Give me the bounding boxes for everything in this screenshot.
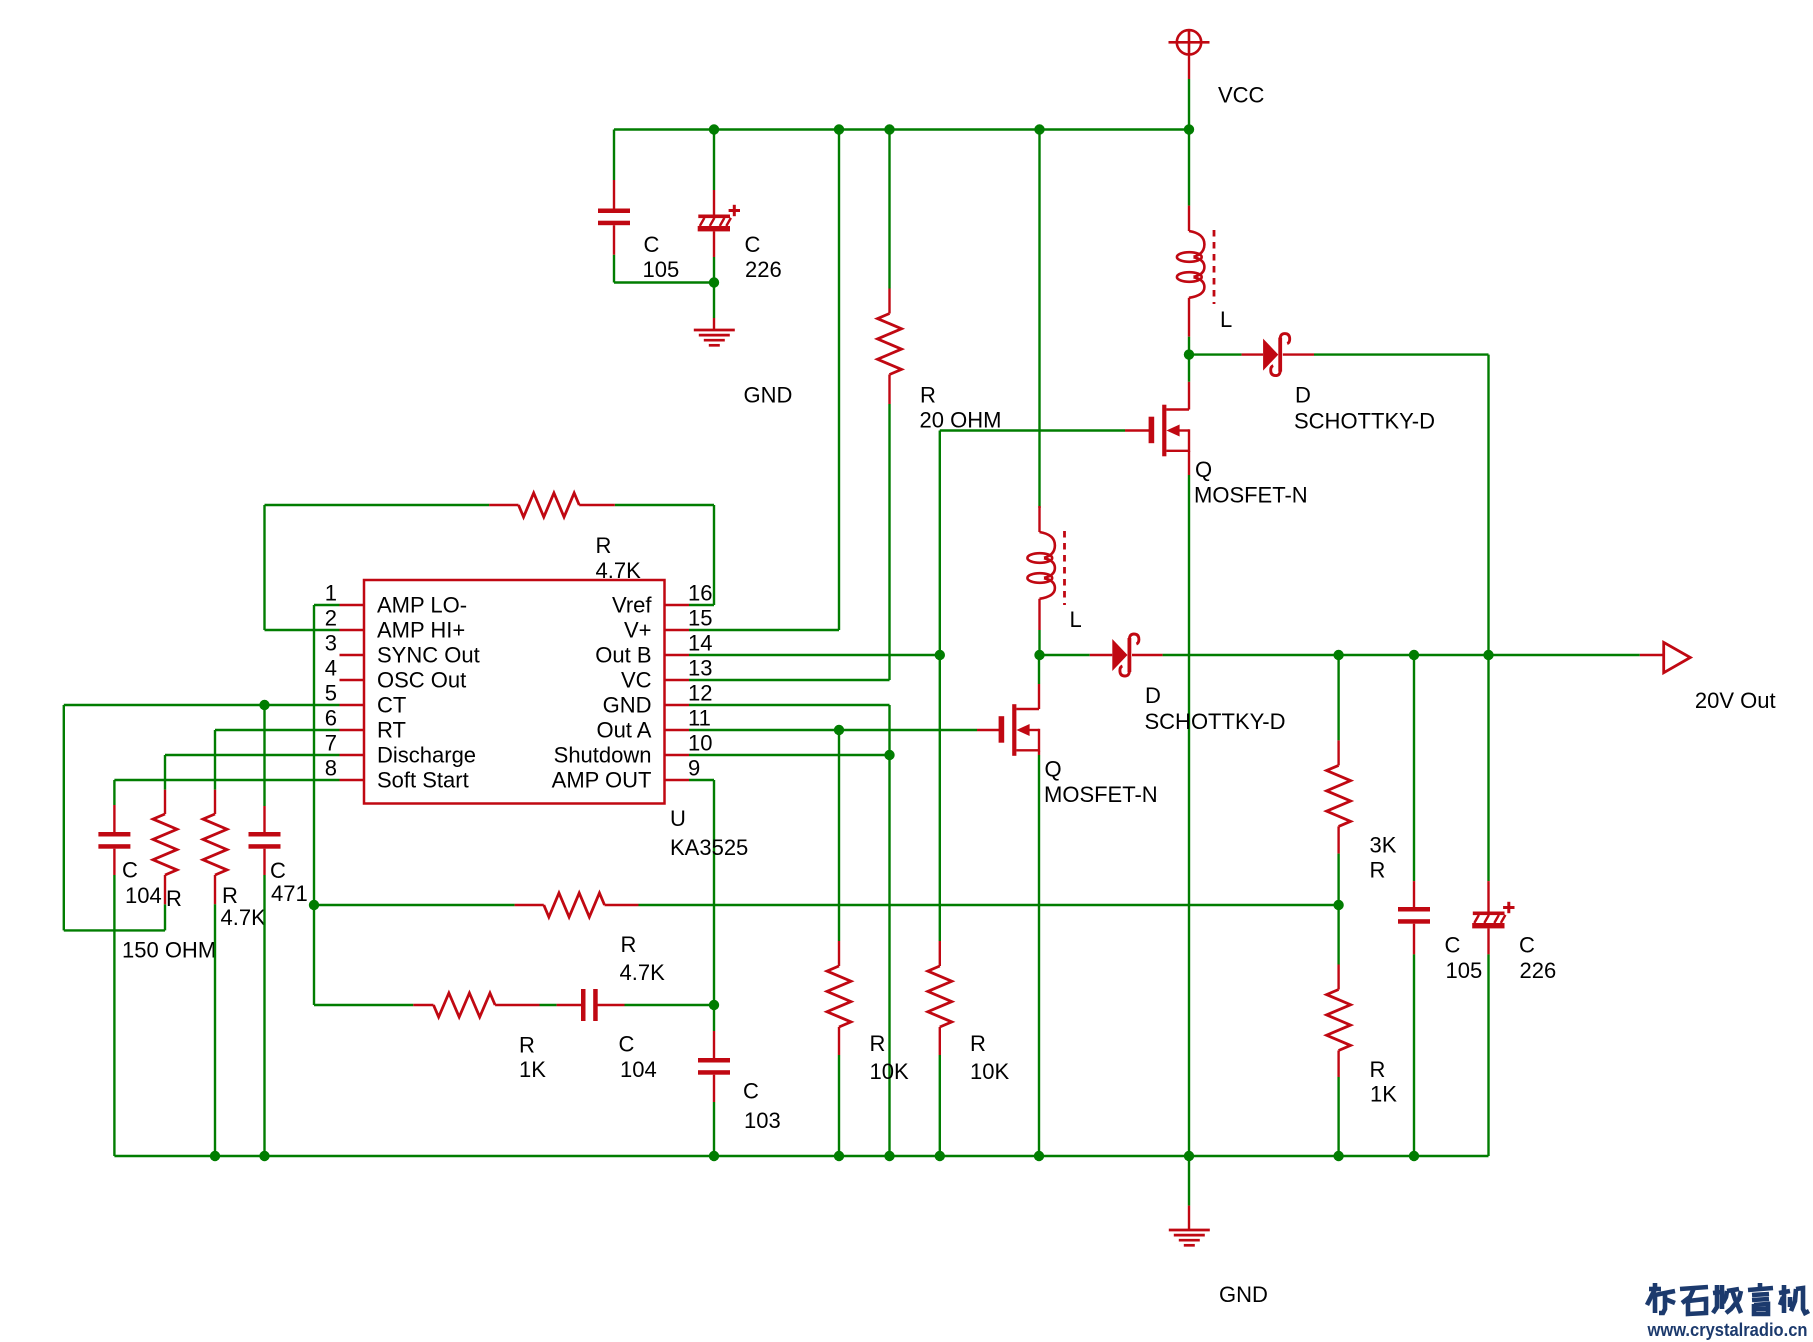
wire Vref to R1 [689, 505, 714, 605]
resistor R10 1K [1327, 990, 1351, 1051]
capacitor C3 104 lead bottom [113, 849, 115, 875]
svg-text:9: 9 [688, 756, 700, 781]
capacitor C4 471 top wire [263, 705, 265, 806]
diode D2 cathode lead [1132, 654, 1163, 656]
label R1 4.7K [596, 533, 642, 583]
svg-text:105: 105 [643, 257, 680, 282]
svg-text:AMP OUT: AMP OUT [552, 768, 652, 793]
node VCC-bus junction L1 [1184, 124, 1194, 134]
resistor R7 lead left [515, 904, 544, 906]
resistor R2 20ohm lead top [888, 289, 890, 314]
wire AMP OUT to comp node [689, 780, 714, 1005]
svg-text:7: 7 [325, 731, 337, 756]
wire 3K top [1337, 655, 1339, 740]
pin8 stub [340, 779, 365, 781]
resistor R3 150ohm lead top [164, 790, 166, 814]
resistor R2 20 OHM [878, 314, 902, 375]
svg-text:Q: Q [1045, 757, 1062, 782]
wire bus to C226 [713, 130, 715, 191]
resistor R9 3K lead top [1337, 740, 1339, 765]
capacitor C5 104 [581, 989, 598, 1021]
capacitor C2 226 lead bottom [713, 231, 715, 257]
wire R20 to VC pin [689, 404, 890, 680]
label GND top [744, 383, 793, 408]
capacitor C1 105 lead top [613, 180, 615, 210]
wire OutB node to R10K-2 [939, 655, 941, 941]
wire R20 bus drop [888, 130, 890, 289]
label C2 [745, 232, 782, 282]
resistor R4 lead bottom [838, 1027, 840, 1055]
resistor R1 lead right [579, 504, 615, 506]
svg-text:4.7K: 4.7K [620, 960, 666, 985]
transistor Q1 drain lead [1188, 355, 1190, 410]
svg-text:V+: V+ [624, 618, 652, 643]
node VCC-bus junction R20 [884, 124, 894, 134]
node bus R6 [210, 1151, 220, 1161]
label C8 226 [1519, 933, 1556, 984]
svg-text:104: 104 [125, 883, 162, 908]
wire Out B [689, 654, 939, 656]
node bus R10 [1333, 1151, 1343, 1161]
capacitor C1 105 lead bottom [613, 225, 615, 255]
resistor R5 lead bottom [939, 1027, 941, 1055]
pin1 stub [340, 604, 365, 606]
node bus Q1src [1184, 1151, 1194, 1161]
capacitor C4 471 [249, 832, 281, 849]
wire C226b top [1487, 655, 1489, 881]
svg-text:C: C [619, 1032, 635, 1057]
wire RT row [215, 730, 340, 790]
capacitor C2 226 lead top [713, 190, 715, 215]
svg-text:1K: 1K [1370, 1082, 1397, 1107]
svg-text:4: 4 [325, 656, 337, 681]
node bus C103 [709, 1151, 719, 1161]
svg-text:15: 15 [688, 606, 712, 631]
inductor L2 [1027, 531, 1064, 605]
label GND bottom [1219, 1282, 1268, 1307]
wire gate1 feed horizontal [940, 429, 1125, 431]
U1 right pin labels [552, 581, 713, 793]
diode D2 SCHOTTKY-D [1112, 634, 1139, 676]
power VCC symbol [1169, 30, 1210, 79]
svg-text:Out A: Out A [596, 718, 651, 743]
wire output row to arrow [1163, 654, 1640, 656]
svg-text:C: C [1445, 933, 1461, 958]
pin13 stub [665, 679, 690, 681]
label U1 [670, 806, 748, 860]
svg-text:Vref: Vref [612, 593, 652, 618]
label C3 104 [122, 858, 162, 909]
svg-text:C: C [743, 1079, 759, 1104]
capacitor C5 lead right [598, 1004, 625, 1006]
node output/C105b junction [1409, 650, 1419, 660]
wire ground bus [114, 1155, 1488, 1157]
node Out B / gate1 junction [935, 650, 945, 660]
svg-text:KA3525: KA3525 [670, 835, 748, 860]
node bus Q2src [1034, 1151, 1044, 1161]
svg-text:C: C [644, 232, 660, 257]
wire OutA node to R10K-1 [838, 730, 840, 941]
node CT/C471 junction [259, 700, 269, 710]
output arrow lead [1640, 654, 1664, 656]
svg-text:C: C [122, 858, 138, 883]
wire VCC top bus [614, 128, 1189, 130]
label R4 10K [870, 1031, 909, 1084]
node C105/C226 junction [709, 277, 719, 287]
node bus R5 [935, 1151, 945, 1161]
svg-text:4.7K: 4.7K [221, 905, 267, 930]
resistor R8 lead right [495, 1004, 539, 1006]
label R3 150 OHM [122, 886, 216, 963]
svg-text:10K: 10K [870, 1059, 909, 1084]
svg-text:R: R [621, 932, 637, 957]
label R8 1K [519, 1033, 546, 1083]
label L2 [1070, 607, 1082, 632]
capacitor C3 104 lead top [113, 805, 115, 833]
svg-text:L: L [1220, 307, 1232, 332]
svg-text:1K: 1K [519, 1057, 546, 1082]
wire R10 to ground bus [1337, 1077, 1339, 1156]
svg-text:C: C [270, 858, 286, 883]
wire CT row [64, 704, 340, 706]
op-amp U1 KA3525 box [364, 580, 665, 804]
svg-text:U: U [670, 806, 686, 831]
svg-text:OSC Out: OSC Out [377, 668, 466, 693]
label D2 [1145, 683, 1286, 734]
wire feedback row [314, 904, 515, 906]
resistor R8 lead left [413, 1004, 433, 1006]
svg-text:104: 104 [620, 1057, 657, 1082]
node Shutdown/GND junction [884, 750, 894, 760]
svg-text:6: 6 [325, 706, 337, 731]
inductor L1 lead top [1188, 206, 1190, 231]
wire L1 to drain node [1188, 337, 1190, 355]
wire AMP LO- vertical [314, 605, 340, 1005]
wire output row [1040, 654, 1090, 656]
wire feedback row right [639, 904, 1339, 906]
transistor Q2 gate lead [977, 729, 1002, 731]
capacitor C7 105 lead top [1413, 881, 1415, 907]
capacitor C6 103 [698, 1058, 730, 1075]
wire L2 to output node [1038, 630, 1040, 655]
svg-text:20 OHM: 20 OHM [920, 408, 1002, 433]
svg-text:Out B: Out B [595, 643, 651, 668]
svg-text:MOSFET-N: MOSFET-N [1194, 483, 1308, 508]
U1 left pin labels [325, 581, 480, 793]
resistor R6 4.7K (RT) [203, 814, 227, 875]
svg-text:RT: RT [377, 718, 406, 743]
svg-text:1: 1 [325, 581, 337, 606]
pin4 stub [340, 679, 365, 681]
svg-text:3K: 3K [1370, 833, 1397, 858]
svg-text:16: 16 [688, 581, 712, 606]
inductor L1 lead bottom [1188, 298, 1190, 337]
svg-text:MOSFET-N: MOSFET-N [1044, 782, 1158, 807]
wire R8 to C104b [540, 1004, 557, 1006]
resistor R4 10K [827, 966, 851, 1027]
wire gate1 feed vertical [939, 431, 941, 656]
svg-text:CT: CT [377, 693, 406, 718]
wire comp row [314, 1004, 413, 1006]
capacitor C5 lead left [557, 1004, 582, 1006]
label C1 [643, 232, 680, 282]
node bus GNDnet [884, 1151, 894, 1161]
svg-text:105: 105 [1446, 958, 1483, 983]
transistor Q2 source lead [1038, 751, 1040, 755]
svg-text:R: R [1370, 1057, 1386, 1082]
capacitor C8 226 lead top [1487, 881, 1489, 912]
label D1 [1294, 383, 1435, 434]
wire bus to L1 [1188, 130, 1190, 206]
pin16 stub [665, 604, 690, 606]
svg-text:www.crystalradio.cn: www.crystalradio.cn [1647, 1320, 1808, 1340]
pin5 stub [340, 704, 365, 706]
svg-text:5: 5 [325, 681, 337, 706]
svg-text:C: C [745, 232, 761, 257]
wire C226 to ground [713, 257, 715, 318]
transistor Q2 drain lead [1038, 655, 1040, 709]
watermark url [1647, 1320, 1808, 1340]
node bus R4 [834, 1151, 844, 1161]
capacitor C7 105 [1398, 907, 1430, 924]
resistor R10 1K lead bottom [1337, 1051, 1339, 1078]
capacitor C4 471 lead bottom [263, 849, 265, 875]
pin12 stub [665, 704, 690, 706]
svg-text:C: C [1519, 933, 1535, 958]
node L2/Q2/D2 junction [1034, 650, 1044, 660]
svg-text:R: R [1370, 858, 1386, 883]
svg-text:R: R [166, 886, 182, 911]
svg-text:AMP HI+: AMP HI+ [377, 618, 465, 643]
svg-text:R: R [519, 1033, 535, 1058]
wire bus to bottom ground [1188, 1156, 1190, 1206]
resistor R7 4.7K (feedback) [544, 893, 605, 917]
wire 3K to divider node [1337, 854, 1339, 905]
label R2 20 OHM [920, 383, 1002, 433]
node L1/Q1/D1 junction [1184, 349, 1194, 359]
node bus C471 [259, 1151, 269, 1161]
label Q1 [1194, 457, 1308, 508]
pin3 stub [340, 654, 365, 656]
transistor Q2 MOSFET-N [999, 704, 1039, 756]
wire R6 to ground bus [214, 904, 216, 1156]
wire C103 to ground bus [713, 1102, 715, 1156]
capacitor C7 105 lead bottom [1413, 924, 1415, 955]
inductor L2 lead bottom [1038, 599, 1040, 630]
label C7 105 [1445, 933, 1483, 984]
svg-text:R: R [920, 383, 936, 408]
node output/C226b junction [1483, 650, 1493, 660]
wire GND pin to ground [689, 705, 890, 1156]
node Out A / R10K-1 junction [834, 725, 844, 735]
wire Out A [689, 729, 977, 731]
capacitor C6 103 lead top [713, 1031, 715, 1059]
capacitor C6 103 lead bottom [713, 1075, 715, 1102]
node output/3K junction [1333, 650, 1343, 660]
pin14 stub [665, 654, 690, 656]
wire node to C103 [713, 1005, 715, 1031]
wire Discharge row [165, 755, 340, 790]
resistor R5 lead top [939, 941, 941, 966]
wire Q2 source to ground bus [1038, 755, 1040, 1156]
wire R1 row right [615, 504, 714, 506]
svg-text:L: L [1070, 607, 1082, 632]
svg-text:R: R [870, 1031, 886, 1056]
node AMP OUT / C103 junction [709, 1000, 719, 1010]
wire D1 cathode to output [1314, 355, 1489, 655]
node VCC-bus junction C226 [709, 124, 719, 134]
svg-text:VC: VC [621, 668, 652, 693]
svg-text:150 OHM: 150 OHM [122, 938, 216, 963]
wire Soft Start row [114, 780, 339, 805]
label R10 1K [1370, 1057, 1398, 1107]
svg-text:3: 3 [325, 631, 337, 656]
svg-text:SYNC Out: SYNC Out [377, 643, 480, 668]
wire R4 to ground bus [838, 1055, 840, 1156]
label R5 10K [970, 1031, 1009, 1084]
diode D1 cathode lead [1283, 353, 1314, 355]
capacitor C3 104 [98, 832, 130, 849]
node VCC-bus junction V+ [834, 124, 844, 134]
inductor L2 lead top [1038, 506, 1040, 532]
label C4 471 [270, 858, 308, 906]
svg-text:R: R [970, 1031, 986, 1056]
wire D1 anode feed [1189, 353, 1242, 355]
pin10 stub [665, 754, 690, 756]
diode D2 anode lead [1090, 654, 1113, 656]
svg-text:103: 103 [744, 1108, 781, 1133]
label C6 103 [743, 1079, 781, 1134]
wire Q1 source to ground bus [1188, 475, 1190, 1156]
label R9 3K [1370, 833, 1397, 883]
svg-text:14: 14 [688, 631, 712, 656]
label R6 4.7K [221, 883, 267, 930]
svg-text:Q: Q [1195, 457, 1212, 482]
pin2 stub [340, 629, 365, 631]
resistor R10 1K lead top [1337, 965, 1339, 990]
wire divider to R1K [1337, 905, 1339, 965]
resistor R1 lead left [489, 504, 518, 506]
wire C8 to ground bus corner [1487, 954, 1489, 1156]
wire C7 to ground bus [1413, 954, 1415, 1156]
svg-text:AMP LO-: AMP LO- [377, 593, 467, 618]
ground lead under C226 [713, 318, 715, 330]
svg-text:SCHOTTKY-D: SCHOTTKY-D [1294, 409, 1435, 434]
svg-text:Discharge: Discharge [377, 743, 476, 768]
wire L2 bus drop [1038, 130, 1040, 509]
pin9 stub [665, 779, 690, 781]
svg-text:226: 226 [1520, 958, 1557, 983]
watermark logo [1647, 1283, 1809, 1314]
wire C105 bottom to C226 node [614, 255, 714, 283]
resistor R2 20ohm lead bottom [888, 375, 890, 405]
svg-text:GND: GND [1219, 1282, 1268, 1307]
label C5 104 [619, 1032, 657, 1083]
wire R1 row left to AMP HI+ [265, 505, 490, 630]
label VCC [1218, 83, 1265, 108]
wire C5 to AMP OUT node [625, 1004, 715, 1006]
svg-text:D: D [1295, 383, 1311, 408]
resistor R9 3K lead bottom [1337, 826, 1339, 853]
svg-text:13: 13 [688, 656, 712, 681]
resistor R9 3K [1327, 765, 1351, 826]
svg-text:226: 226 [745, 257, 782, 282]
resistor R3 150 OHM [153, 814, 177, 875]
capacitor C8 226 (polarized) [1472, 902, 1514, 929]
node VCC-bus junction L2 [1034, 124, 1044, 134]
wire CT left loop [64, 705, 165, 930]
svg-text:10K: 10K [970, 1059, 1009, 1084]
ground symbol top [694, 330, 735, 345]
svg-text:12: 12 [688, 681, 712, 706]
resistor R6 4.7K lead top [214, 790, 216, 814]
svg-text:VCC: VCC [1218, 83, 1265, 108]
resistor R1 4.7K [519, 493, 580, 517]
ground lead bottom [1188, 1206, 1190, 1230]
svg-text:SCHOTTKY-D: SCHOTTKY-D [1145, 709, 1286, 734]
output arrow [1664, 642, 1691, 672]
label Q2 [1044, 757, 1158, 808]
svg-text:471: 471 [271, 881, 308, 906]
wire C105b top [1413, 655, 1415, 881]
pin7 stub [340, 754, 365, 756]
node feedback/pin1 junction [309, 900, 319, 910]
svg-text:GND: GND [603, 693, 652, 718]
label 20V Out [1695, 688, 1776, 713]
resistor R4 lead top [838, 941, 840, 966]
wire C471 to ground bus [263, 875, 265, 1156]
node divider junction [1333, 900, 1343, 910]
label L1 [1220, 307, 1232, 332]
wire bus to C105 [613, 130, 615, 181]
transistor Q1 MOSFET-N [1149, 405, 1189, 457]
svg-text:Shutdown: Shutdown [554, 743, 652, 768]
pin6 stub [340, 729, 365, 731]
svg-text:10: 10 [688, 731, 712, 756]
svg-text:8: 8 [325, 756, 337, 781]
transistor Q1 source lead [1188, 451, 1190, 475]
svg-text:R: R [596, 533, 612, 558]
label R7 4.7K [620, 932, 666, 985]
capacitor C1 105 [598, 209, 630, 226]
diode D1 SCHOTTKY-D [1263, 334, 1290, 376]
pin11 stub [665, 729, 690, 731]
svg-text:20V Out: 20V Out [1695, 688, 1776, 713]
resistor R6 lead bottom [214, 875, 216, 904]
resistor R8 1K [434, 993, 496, 1017]
transistor Q1 gate lead [1125, 429, 1150, 431]
svg-text:11: 11 [688, 706, 711, 731]
wire V+ vertical from bus [689, 130, 839, 631]
capacitor C4 471 lead top [263, 806, 265, 833]
wire Shutdown [689, 754, 890, 756]
capacitor C8 226 lead bottom [1487, 928, 1489, 954]
svg-text:GND: GND [744, 383, 793, 408]
inductor L1 [1177, 230, 1214, 304]
wire R5 to ground bus [939, 1055, 941, 1156]
ground symbol bottom [1169, 1230, 1210, 1245]
wire C104 to ground bus corner [113, 875, 115, 1156]
pin15 stub [665, 629, 690, 631]
node bus C7 [1409, 1151, 1419, 1161]
diode D1 anode lead [1242, 353, 1264, 355]
svg-text:D: D [1145, 683, 1161, 708]
resistor R3 150ohm lead bottom [164, 875, 166, 904]
svg-text:Soft Start: Soft Start [377, 768, 469, 793]
resistor R7 lead right [605, 904, 639, 906]
wire VCC symbol to bus [1188, 79, 1190, 130]
svg-text:2: 2 [325, 606, 337, 631]
